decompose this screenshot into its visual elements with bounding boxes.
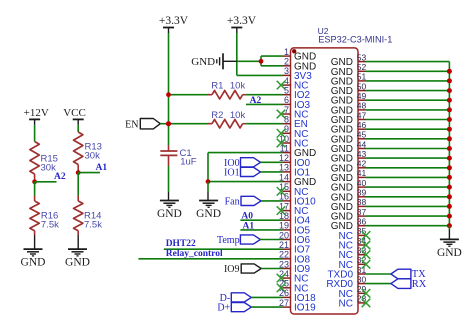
- power VCC: [63, 107, 86, 125]
- junction: [259, 59, 264, 64]
- pin 37 GND: [331, 207, 367, 223]
- wire: [208, 181, 283, 183]
- pin 43 GND: [331, 149, 367, 165]
- pin 8 EN: [283, 115, 308, 131]
- pin 31 TXD0: [327, 265, 366, 281]
- svg-text:NC: NC: [339, 241, 353, 252]
- node A2 junction: [32, 179, 37, 184]
- svg-text:NC: NC: [339, 289, 353, 300]
- node A2: [246, 96, 283, 106]
- svg-text:VCC: VCC: [63, 107, 86, 119]
- wire: [448, 62, 450, 226]
- power +12V: [24, 107, 49, 125]
- svg-text:GND: GND: [331, 183, 353, 194]
- pin 36 GND: [331, 217, 367, 233]
- pin 52 GND: [331, 62, 367, 78]
- svg-text:48: 48: [357, 101, 367, 111]
- ground: [196, 201, 221, 220]
- svg-text:ESP32-C3-MINI-1: ESP32-C3-MINI-1: [318, 35, 392, 45]
- wire: [260, 56, 262, 61]
- ground GND power port: [191, 53, 237, 69]
- wire: [237, 60, 261, 62]
- junction: [447, 146, 452, 151]
- wire: [77, 125, 79, 132]
- node A1 junction: [76, 170, 81, 175]
- svg-text:14: 14: [279, 172, 289, 182]
- ic U2 ESP32-C3-MINI-1: [291, 48, 359, 314]
- svg-text:37: 37: [357, 207, 367, 217]
- pin 19 IO5: [279, 221, 311, 237]
- wire: [207, 182, 209, 192]
- wire: [366, 157, 449, 159]
- svg-text:GND: GND: [331, 163, 353, 174]
- svg-text:NC: NC: [339, 298, 353, 309]
- pin 32 NC: [339, 255, 371, 271]
- pin 38 GND: [331, 197, 367, 213]
- junction: [447, 223, 452, 228]
- port Temp: [217, 235, 260, 246]
- wire: [366, 205, 449, 207]
- svg-text:D+: D+: [217, 303, 230, 314]
- svg-text:R1: R1: [211, 81, 223, 92]
- svg-text:46: 46: [357, 120, 367, 130]
- wire: [168, 192, 170, 201]
- pin 25 NC: [277, 279, 309, 295]
- svg-text:2: 2: [284, 57, 289, 67]
- junction: [447, 98, 452, 103]
- wire: [366, 273, 391, 275]
- pin 7 NC: [277, 105, 309, 121]
- port EN: [125, 119, 160, 131]
- svg-text:53: 53: [357, 52, 367, 62]
- svg-text:RXD0: RXD0: [326, 279, 353, 290]
- junction: [447, 204, 452, 209]
- pin 17 NC: [277, 201, 309, 217]
- ground: [21, 249, 46, 268]
- svg-text:20: 20: [279, 230, 289, 240]
- junction: [447, 127, 452, 132]
- port IO9: [224, 264, 261, 275]
- svg-text:IO9: IO9: [224, 264, 240, 275]
- pin 26 IO18: [279, 288, 316, 304]
- wire: [366, 196, 449, 198]
- svg-text:IO1: IO1: [224, 168, 240, 179]
- wire: [207, 153, 209, 182]
- svg-text:1: 1: [284, 47, 289, 57]
- svg-text:GND: GND: [331, 212, 353, 223]
- wire: [168, 166, 170, 192]
- wire: [366, 138, 449, 140]
- wire: [366, 61, 449, 63]
- pin 44 GND: [331, 139, 367, 155]
- pin 30 RXD0: [326, 274, 366, 290]
- svg-text:47: 47: [357, 110, 367, 120]
- port RX: [391, 279, 427, 290]
- svg-text:27: 27: [279, 298, 289, 308]
- wire: [169, 123, 211, 125]
- svg-text:GND: GND: [157, 208, 182, 220]
- pin 41 GND: [331, 168, 367, 184]
- svg-text:GND: GND: [331, 115, 353, 126]
- pin 20 IO6: [279, 230, 311, 246]
- svg-text:DHT22: DHT22: [166, 239, 196, 249]
- svg-text:42: 42: [357, 159, 367, 169]
- wire: [366, 148, 449, 150]
- power +3.3V: [227, 15, 257, 33]
- wire: [77, 173, 79, 196]
- junction: [447, 214, 452, 219]
- resistor R15: [30, 142, 58, 182]
- capacitor C1: [160, 145, 196, 168]
- pin 1 marker dot: [292, 49, 296, 53]
- pin 45 GND: [331, 130, 367, 146]
- junction: [447, 185, 452, 190]
- pin 5 IO2: [283, 86, 311, 102]
- pin 21 IO7: [279, 240, 311, 256]
- wire: [246, 94, 282, 96]
- svg-text:43: 43: [357, 149, 367, 159]
- svg-text:10k: 10k: [230, 110, 246, 121]
- wire: [448, 226, 450, 230]
- junction: [447, 88, 452, 93]
- svg-text:39: 39: [357, 188, 367, 198]
- pin 29 NC: [339, 284, 371, 300]
- svg-text:GND: GND: [331, 67, 353, 78]
- pin 4 NC: [277, 76, 309, 92]
- svg-text:NC: NC: [339, 250, 353, 261]
- wire: [261, 161, 283, 163]
- wire: [251, 306, 282, 308]
- svg-text:30k: 30k: [85, 151, 101, 162]
- svg-text:+12V: +12V: [24, 107, 49, 119]
- ground: [65, 249, 90, 268]
- svg-text:IO19: IO19: [294, 303, 316, 314]
- svg-text:Temp: Temp: [217, 235, 240, 246]
- svg-text:44: 44: [357, 139, 367, 149]
- svg-text:51: 51: [357, 72, 367, 82]
- port TX: [391, 269, 426, 280]
- pin 9 NC: [277, 124, 309, 140]
- svg-text:21: 21: [279, 240, 289, 250]
- svg-text:GND: GND: [331, 134, 353, 145]
- pin 48 GND: [331, 101, 367, 117]
- pin 14 GND: [279, 172, 316, 188]
- ground: [157, 201, 182, 220]
- svg-text:GND: GND: [331, 202, 353, 213]
- node A0: [240, 211, 282, 221]
- pin 35 NC: [339, 226, 371, 242]
- svg-text:36: 36: [357, 217, 367, 227]
- wire: [168, 124, 170, 145]
- svg-text:EN: EN: [125, 119, 138, 130]
- svg-text:26: 26: [279, 288, 289, 298]
- wire: [259, 239, 282, 241]
- junction: [447, 175, 452, 180]
- junction: [206, 179, 211, 184]
- pin 40 GND: [331, 178, 367, 194]
- wire: [366, 99, 449, 101]
- svg-text:A0: A0: [241, 211, 253, 221]
- pin 24 NC: [277, 269, 309, 285]
- svg-text:30: 30: [357, 274, 367, 284]
- svg-text:22: 22: [279, 250, 289, 260]
- svg-text:31: 31: [357, 265, 367, 275]
- pin 22 IO8: [279, 250, 311, 266]
- wire: [366, 128, 449, 130]
- junction: [166, 92, 171, 97]
- wire: [34, 182, 36, 196]
- node A2: [35, 172, 66, 182]
- pin 2 GND: [283, 57, 317, 73]
- wire: [366, 186, 449, 188]
- svg-text:3: 3: [284, 66, 289, 76]
- pin 10 NC: [277, 134, 309, 150]
- svg-text:GND: GND: [331, 76, 353, 87]
- wire: [34, 125, 36, 142]
- svg-text:13: 13: [279, 163, 289, 173]
- svg-text:19: 19: [279, 221, 289, 231]
- wire: [366, 70, 449, 72]
- node A1: [78, 163, 107, 173]
- resistor R1: [208, 81, 246, 99]
- svg-text:GND: GND: [191, 56, 215, 68]
- node Relay_control: [138, 249, 282, 259]
- pin 1 GND: [283, 47, 317, 63]
- svg-text:GND: GND: [331, 125, 353, 136]
- svg-text:A2: A2: [250, 96, 262, 106]
- junction: [447, 117, 452, 122]
- wire: [366, 119, 449, 121]
- svg-text:RX: RX: [412, 279, 427, 290]
- svg-text:38: 38: [357, 197, 367, 207]
- wire: [237, 74, 283, 76]
- node DHT22: [164, 239, 283, 249]
- wire: [246, 123, 282, 125]
- pin 34 NC: [339, 236, 371, 252]
- svg-text:GND: GND: [196, 208, 221, 220]
- wire: [160, 123, 168, 125]
- pin 51 GND: [331, 72, 367, 88]
- wire: [366, 225, 449, 227]
- wire: [34, 235, 36, 249]
- svg-text:GND: GND: [21, 257, 46, 269]
- junction: [447, 107, 452, 112]
- pin 15 NC: [277, 182, 309, 198]
- svg-text:+3.3V: +3.3V: [159, 15, 189, 27]
- pin 33 NC: [339, 246, 371, 262]
- wire: [366, 167, 449, 169]
- resistor R14: [74, 196, 103, 236]
- pin 11 GND: [280, 143, 317, 159]
- pin 6 IO3: [283, 95, 311, 111]
- svg-text:40: 40: [357, 178, 367, 188]
- svg-text:10k: 10k: [230, 81, 246, 92]
- svg-text:11: 11: [280, 143, 289, 153]
- svg-text:GND: GND: [437, 247, 462, 259]
- svg-text:A1: A1: [243, 221, 255, 231]
- ground: [437, 239, 462, 258]
- svg-text:7.5k: 7.5k: [41, 220, 59, 231]
- svg-text:41: 41: [357, 168, 367, 178]
- wire: [261, 268, 282, 270]
- pin 16 IO10: [279, 192, 316, 208]
- node A1: [240, 221, 282, 231]
- wire: [366, 109, 449, 111]
- svg-text:6: 6: [284, 95, 289, 105]
- svg-text:7.5k: 7.5k: [84, 220, 102, 231]
- pin 49 GND: [331, 91, 367, 107]
- pin 46 GND: [331, 120, 367, 136]
- pin 12 IO0: [279, 153, 311, 169]
- svg-text:8: 8: [284, 115, 289, 125]
- pin 50 GND: [331, 81, 367, 97]
- svg-text:5: 5: [284, 86, 289, 96]
- svg-text:49: 49: [357, 91, 367, 101]
- svg-text:52: 52: [357, 62, 367, 72]
- svg-text:A2: A2: [54, 172, 66, 182]
- junction: [447, 156, 452, 161]
- svg-text:NC: NC: [339, 231, 353, 242]
- wire: [366, 90, 449, 92]
- svg-text:Relay_control: Relay_control: [166, 249, 223, 259]
- wire: [366, 80, 449, 82]
- svg-text:50: 50: [357, 81, 367, 91]
- pin 28 NC: [339, 294, 371, 310]
- port Fan: [225, 196, 261, 207]
- pin 53 GND: [331, 52, 367, 68]
- wire: [366, 176, 449, 178]
- junction: [447, 136, 452, 141]
- wire: [168, 95, 170, 124]
- svg-text:GND: GND: [331, 192, 353, 203]
- svg-text:16: 16: [279, 192, 289, 202]
- svg-text:R2: R2: [211, 110, 223, 121]
- pin 23 IO9: [279, 259, 311, 275]
- pin 42 GND: [331, 159, 367, 175]
- svg-text:1uF: 1uF: [180, 157, 197, 168]
- svg-text:Fan: Fan: [225, 196, 240, 207]
- port D+: [217, 303, 251, 314]
- svg-text:GND: GND: [331, 173, 353, 184]
- port IO1: [224, 167, 260, 178]
- svg-text:GND: GND: [331, 86, 353, 97]
- port IO0: [224, 158, 260, 169]
- junction: [447, 165, 452, 170]
- svg-text:12: 12: [279, 153, 289, 163]
- svg-text:GND: GND: [331, 96, 353, 107]
- svg-text:+3.3V: +3.3V: [227, 15, 257, 27]
- junction: [166, 121, 171, 126]
- port D-: [220, 293, 252, 304]
- pin 18 IO4: [279, 211, 311, 227]
- svg-text:NC: NC: [339, 260, 353, 271]
- svg-text:TXD0: TXD0: [327, 270, 353, 281]
- svg-text:GND: GND: [331, 57, 353, 68]
- resistor R16: [30, 196, 59, 236]
- svg-text:GND: GND: [65, 257, 90, 269]
- svg-text:GND: GND: [331, 221, 353, 232]
- power +3.3V: [159, 15, 189, 33]
- wire: [366, 283, 391, 285]
- resistor R2: [208, 110, 246, 128]
- pin 27 IO19: [279, 298, 316, 314]
- junction: [447, 78, 452, 83]
- pin 3 3V3: [283, 66, 313, 82]
- wire: [261, 171, 283, 173]
- svg-text:18: 18: [279, 211, 289, 221]
- svg-text:23: 23: [279, 259, 289, 269]
- wire: [251, 296, 282, 298]
- wire: [77, 235, 79, 249]
- svg-text:GND: GND: [331, 105, 353, 116]
- wire: [236, 33, 238, 75]
- wire: [366, 215, 449, 217]
- wire: [168, 33, 170, 95]
- wire: [169, 94, 211, 96]
- junction: [447, 194, 452, 199]
- pin 39 GND: [331, 188, 367, 204]
- pin 47 GND: [331, 110, 367, 126]
- resistor R13: [74, 132, 102, 173]
- svg-text:45: 45: [357, 130, 367, 140]
- svg-text:GND: GND: [331, 144, 353, 155]
- wire: [208, 152, 283, 154]
- svg-text:A1: A1: [96, 163, 108, 173]
- wire: [261, 200, 283, 202]
- junction: [447, 69, 452, 74]
- wire: [260, 61, 262, 66]
- svg-text:GND: GND: [331, 154, 353, 165]
- pin 13 IO1: [279, 163, 311, 179]
